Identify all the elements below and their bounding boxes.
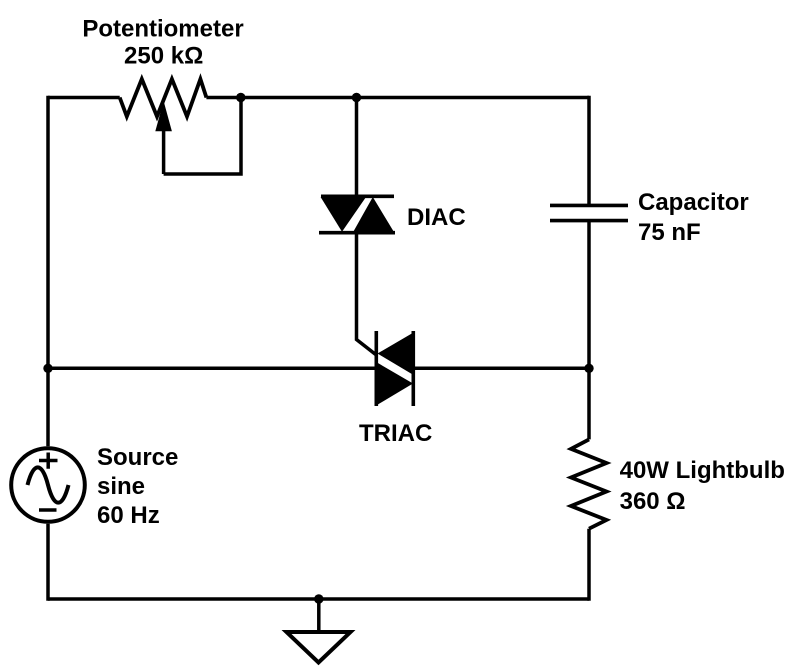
wire left vertical upper xyxy=(46,96,50,447)
wire middle horizontal left xyxy=(48,367,376,371)
junction dot diac branch node xyxy=(352,93,361,102)
svg-text:Source: Source xyxy=(97,444,178,471)
wire right vertical upper xyxy=(587,96,591,206)
value label 75 nF xyxy=(638,219,701,246)
capacitor C1 xyxy=(550,205,628,220)
wire top-left horizontal xyxy=(48,96,120,100)
potentiometer wiper arrow xyxy=(155,101,172,174)
diac D1 xyxy=(319,196,395,232)
svg-text:60 Hz: 60 Hz xyxy=(97,502,160,529)
label TRIAC xyxy=(359,420,432,447)
svg-text:sine: sine xyxy=(97,473,145,500)
junction dot pot wiper node xyxy=(236,93,245,102)
wire ground stub xyxy=(317,599,321,632)
source V1 sine 60Hz xyxy=(11,448,85,522)
svg-text:40W Lightbulb: 40W Lightbulb xyxy=(620,457,785,484)
value label 360 Ohm xyxy=(620,488,686,515)
svg-text:Capacitor: Capacitor xyxy=(638,189,749,216)
svg-text:75 nF: 75 nF xyxy=(638,219,701,246)
svg-text:360 Ω: 360 Ω xyxy=(620,488,686,515)
wire right vertical lower xyxy=(587,529,591,601)
svg-text:Potentiometer: Potentiometer xyxy=(82,16,243,43)
wire right vertical middle xyxy=(587,221,591,440)
triac Q1 xyxy=(376,331,413,406)
potentiometer body zigzag xyxy=(120,79,207,117)
wire middle horizontal right xyxy=(413,367,589,371)
svg-text:DIAC: DIAC xyxy=(407,204,466,231)
potentiometer wiper wire xyxy=(164,98,241,175)
label DIAC xyxy=(407,204,466,231)
label Capacitor xyxy=(638,189,749,216)
value label 250 kOhm xyxy=(124,43,203,70)
junction dot ground node xyxy=(314,594,323,603)
wire diac branch vertical xyxy=(355,98,359,197)
label Potentiometer xyxy=(82,16,243,43)
wire top horizontal xyxy=(206,96,589,100)
junction dot right mid node xyxy=(584,364,593,373)
junction dot left mid node xyxy=(43,364,52,373)
label Source sine 60 Hz xyxy=(97,444,178,529)
wire triac gate xyxy=(357,233,377,355)
resistor lightbulb zigzag xyxy=(571,439,607,528)
svg-text:250 kΩ: 250 kΩ xyxy=(124,43,203,70)
wire bottom horizontal xyxy=(48,597,589,601)
wire left vertical lower xyxy=(46,524,50,601)
svg-text:TRIAC: TRIAC xyxy=(359,420,432,447)
label 40W Lightbulb xyxy=(620,457,785,484)
ground xyxy=(287,632,351,663)
